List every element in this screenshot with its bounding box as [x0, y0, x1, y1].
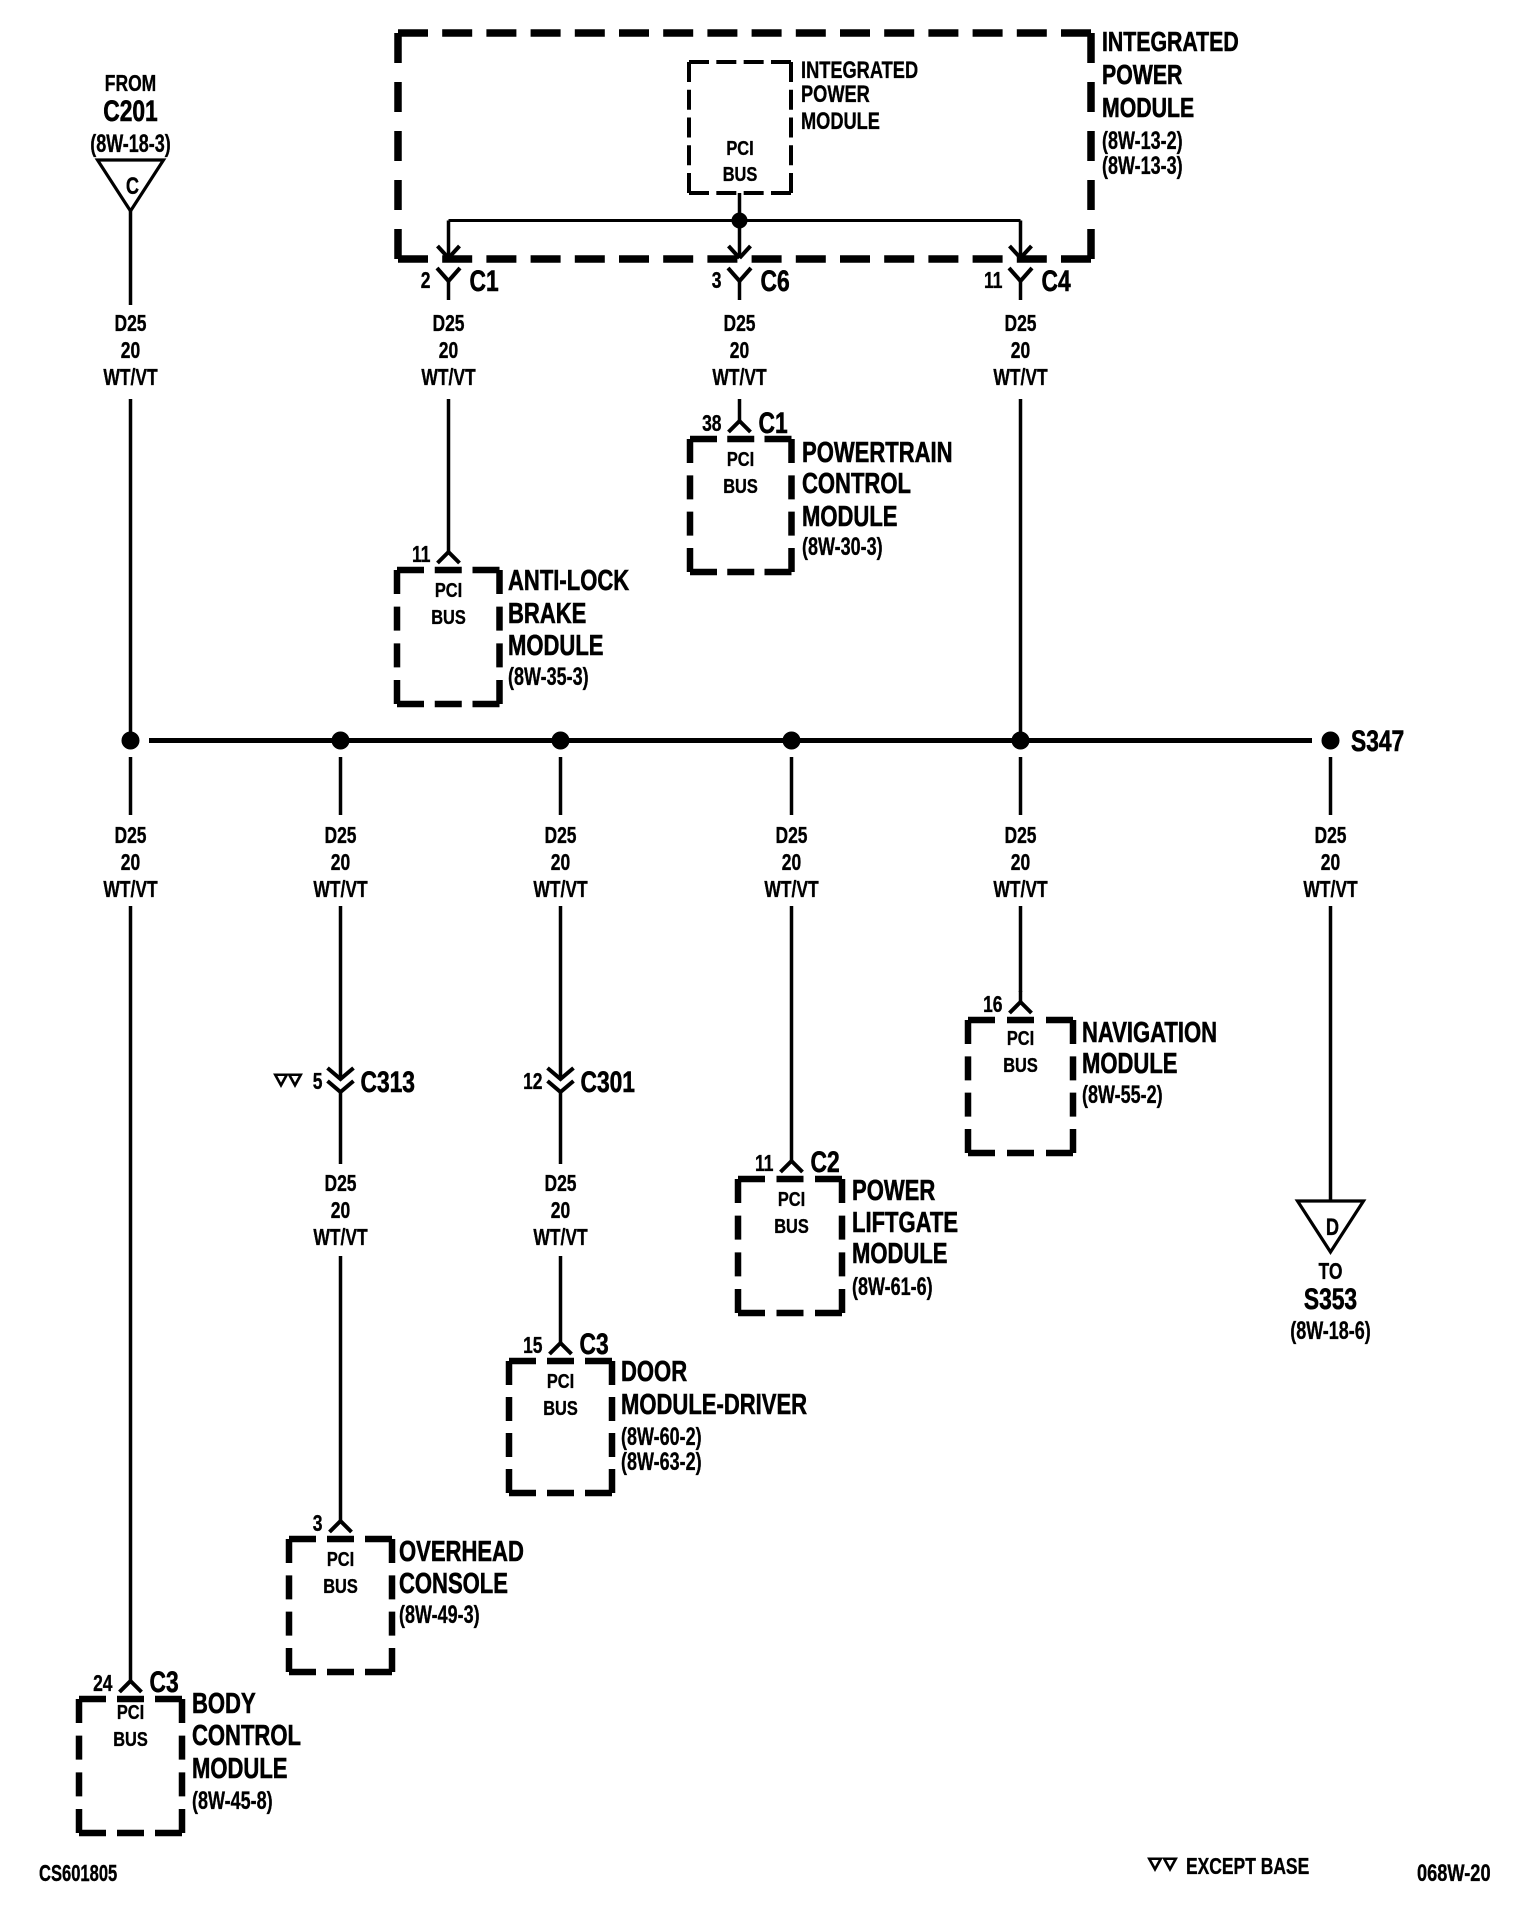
svg-text:D25: D25	[544, 824, 576, 849]
module box ANTI-LOCK BRAKE MODULE	[397, 570, 500, 704]
label CS601805	[39, 1861, 117, 1886]
label POWERTRAIN CONTROL MODULE	[802, 437, 953, 561]
label TO S353 (8W-18-6)	[1290, 1260, 1371, 1345]
connector C4 pin 11	[984, 264, 1071, 300]
svg-text:POWER: POWER	[801, 81, 870, 108]
svg-text:20: 20	[1011, 851, 1030, 876]
svg-text:12: 12	[523, 1070, 542, 1095]
svg-text:38: 38	[702, 412, 721, 437]
svg-text:MODULE: MODULE	[801, 108, 880, 135]
connector C3 pin 24 into BCM	[93, 1665, 179, 1699]
off-page connector triangle D	[1298, 1201, 1364, 1252]
junction dot	[732, 213, 748, 229]
connector C2 pin 11 into liftgate	[755, 1145, 840, 1179]
label ANTI-LOCK BRAKE MODULE	[508, 565, 630, 691]
svg-text:3: 3	[712, 269, 722, 294]
svg-text:C201: C201	[103, 94, 158, 128]
wire below splice col4	[790, 757, 794, 815]
svg-text:C1: C1	[759, 406, 788, 440]
svg-text:PCI: PCI	[727, 447, 754, 470]
wire label D25 20 WT/VT col1 top	[103, 312, 158, 391]
connector C1 pin 2	[421, 264, 499, 300]
svg-text:(8W-63-2): (8W-63-2)	[621, 1447, 702, 1476]
wire below splice col6	[1329, 757, 1333, 815]
svg-text:DOOR: DOOR	[621, 1356, 687, 1388]
svg-text:MODULE: MODULE	[1082, 1048, 1177, 1080]
svg-text:WT/VT: WT/VT	[993, 878, 1048, 903]
svg-text:D25: D25	[775, 824, 807, 849]
svg-text:MODULE: MODULE	[802, 501, 897, 533]
module box BODY CONTROL MODULE	[79, 1699, 182, 1833]
svg-text:BUS: BUS	[1003, 1053, 1038, 1076]
svg-text:POWER: POWER	[852, 1175, 936, 1207]
svg-text:WT/VT: WT/VT	[993, 366, 1048, 391]
wire below splice col2	[339, 757, 343, 815]
svg-text:068W-20: 068W-20	[1417, 1860, 1491, 1887]
svg-text:NAVIGATION: NAVIGATION	[1082, 1017, 1217, 1049]
except-base footnote triangles	[1149, 1859, 1176, 1870]
module box INTEGRATED POWER MODULE	[398, 33, 1091, 259]
svg-text:D25: D25	[1004, 824, 1036, 849]
wire PCI BUS to junction	[738, 193, 742, 221]
svg-text:WT/VT: WT/VT	[533, 878, 588, 903]
module box POWER LIFTGATE MODULE	[738, 1179, 842, 1313]
connector pin 3 into overhead console	[313, 1510, 352, 1537]
svg-text:3: 3	[313, 1512, 323, 1537]
connector C3 pin 15 into door module	[523, 1327, 609, 1361]
svg-text:20: 20	[1321, 851, 1340, 876]
label POWER LIFTGATE MODULE	[852, 1175, 958, 1301]
svg-text:D25: D25	[114, 312, 146, 337]
wire C4 column to splice	[1019, 399, 1023, 741]
connector pin 11 into ABS	[412, 541, 459, 568]
svg-text:WT/VT: WT/VT	[533, 1226, 588, 1251]
svg-text:C3: C3	[580, 1327, 609, 1361]
wire label D25 below splice col2	[313, 824, 368, 903]
module box OVERHEAD CONSOLE	[289, 1539, 392, 1672]
svg-text:WT/VT: WT/VT	[103, 878, 158, 903]
svg-text:(8W-13-3): (8W-13-3)	[1102, 151, 1183, 180]
svg-text:TO: TO	[1319, 1260, 1343, 1285]
svg-text:BUS: BUS	[323, 1574, 358, 1597]
svg-text:(8W-55-2): (8W-55-2)	[1082, 1080, 1163, 1109]
svg-text:LIFTGATE: LIFTGATE	[852, 1207, 958, 1239]
wire label D25 below splice col4	[764, 824, 819, 903]
svg-text:CONTROL: CONTROL	[192, 1720, 301, 1752]
module box NAVIGATION MODULE	[968, 1020, 1073, 1153]
svg-text:D25: D25	[324, 1172, 356, 1197]
svg-text:20: 20	[121, 851, 140, 876]
svg-text:11: 11	[755, 1152, 773, 1177]
label BODY CONTROL MODULE	[192, 1688, 301, 1815]
wire col1 to splice	[129, 399, 133, 741]
svg-text:(8W-49-3): (8W-49-3)	[399, 1600, 480, 1629]
svg-text:PCI: PCI	[117, 1700, 144, 1723]
svg-text:WT/VT: WT/VT	[764, 878, 819, 903]
svg-text:(8W-45-8): (8W-45-8)	[192, 1786, 273, 1815]
svg-text:WT/VT: WT/VT	[313, 878, 368, 903]
wire below splice col5	[1019, 757, 1023, 815]
svg-text:PCI: PCI	[1007, 1026, 1034, 1049]
wire col1 down to BCM	[129, 906, 133, 1670]
label NAVIGATION MODULE	[1082, 1017, 1217, 1109]
label DOOR MODULE-DRIVER	[621, 1356, 807, 1476]
label 068W-20	[1417, 1860, 1491, 1887]
svg-text:(8W-18-3): (8W-18-3)	[90, 129, 171, 158]
svg-text:MODULE-DRIVER: MODULE-DRIVER	[621, 1389, 807, 1421]
svg-text:20: 20	[730, 339, 749, 364]
arrow into pin 11 C4	[1010, 221, 1032, 259]
label OVERHEAD CONSOLE	[399, 1536, 524, 1629]
svg-text:11: 11	[984, 269, 1002, 294]
connector C1 pin 38 into PCM	[702, 406, 788, 440]
svg-text:MODULE: MODULE	[508, 630, 603, 662]
junction dot col4	[783, 732, 801, 750]
svg-text:ANTI-LOCK: ANTI-LOCK	[508, 565, 630, 597]
svg-text:EXCEPT BASE: EXCEPT BASE	[1186, 1855, 1309, 1880]
wire label D25 below splice col6	[1303, 824, 1358, 903]
wire label D25 below splice col1	[103, 824, 158, 903]
connector pin 16 into navigation	[983, 991, 1031, 1018]
svg-text:MODULE: MODULE	[1102, 92, 1194, 124]
wire label D25 below splice col5	[993, 824, 1048, 903]
svg-text:WT/VT: WT/VT	[712, 366, 767, 391]
arrow into pin 3 C6	[729, 221, 751, 258]
PCI BUS box inside IPM	[689, 62, 791, 193]
svg-text:20: 20	[782, 851, 801, 876]
label FROM C201 (8W-18-3)	[90, 72, 171, 158]
label integrated power module (inner)	[801, 57, 918, 135]
wire label D25 col C6	[712, 312, 767, 391]
svg-text:BUS: BUS	[431, 605, 466, 628]
svg-text:20: 20	[121, 339, 140, 364]
svg-text:C6: C6	[761, 264, 790, 298]
svg-text:D25: D25	[1004, 312, 1036, 337]
wire col3 middle	[559, 1092, 563, 1164]
label INTEGRATED POWER MODULE title	[1102, 26, 1239, 180]
junction dot col1	[122, 732, 140, 750]
wire col2 to overhead console	[339, 1256, 343, 1510]
svg-text:CS601805: CS601805	[39, 1861, 117, 1886]
wire col5 to navigation	[1019, 906, 1023, 992]
svg-text:BUS: BUS	[723, 162, 758, 185]
svg-text:BUS: BUS	[723, 474, 758, 497]
svg-text:20: 20	[551, 1199, 570, 1224]
svg-text:16: 16	[983, 993, 1002, 1018]
connector C6 pin 3	[712, 264, 790, 300]
svg-text:D25: D25	[544, 1172, 576, 1197]
svg-text:5: 5	[313, 1070, 323, 1095]
svg-text:BUS: BUS	[774, 1214, 809, 1237]
svg-text:24: 24	[93, 1672, 113, 1697]
label EXCEPT BASE	[1186, 1855, 1309, 1880]
svg-text:C313: C313	[361, 1065, 415, 1099]
svg-text:POWER: POWER	[1102, 59, 1182, 91]
wire label D25 col C4	[993, 312, 1048, 391]
distribution wire horizontal	[449, 219, 1021, 222]
svg-text:WT/VT: WT/VT	[103, 366, 158, 391]
svg-text:MODULE: MODULE	[852, 1238, 947, 1270]
svg-text:S353: S353	[1304, 1282, 1357, 1316]
svg-text:(8W-61-6): (8W-61-6)	[852, 1272, 933, 1301]
svg-text:BODY: BODY	[192, 1688, 256, 1720]
svg-text:WT/VT: WT/VT	[1303, 878, 1358, 903]
wire col4 to liftgate	[790, 906, 794, 1150]
svg-text:C2: C2	[811, 1145, 840, 1179]
module box POWERTRAIN CONTROL MODULE	[690, 439, 792, 572]
wire to PCM connector	[738, 399, 742, 410]
wire below splice col1	[129, 757, 133, 815]
wire label D25 col3 second	[533, 1172, 588, 1251]
wire label D25 col C1	[421, 312, 476, 391]
wire col3 to door module	[559, 1256, 563, 1332]
svg-text:PCI: PCI	[435, 578, 462, 601]
svg-text:CONTROL: CONTROL	[802, 468, 911, 500]
svg-text:POWERTRAIN: POWERTRAIN	[802, 437, 953, 469]
svg-text:MODULE: MODULE	[192, 1753, 287, 1785]
wire col2 middle	[339, 1092, 343, 1164]
splice dot S347	[1322, 724, 1405, 758]
svg-text:20: 20	[551, 851, 570, 876]
svg-text:C: C	[126, 173, 139, 200]
svg-text:CONSOLE: CONSOLE	[399, 1568, 508, 1600]
off-page connector triangle C	[98, 160, 164, 211]
svg-text:PCI: PCI	[547, 1369, 574, 1392]
wire label D25 below splice col3	[533, 824, 588, 903]
svg-text:PCI: PCI	[726, 136, 753, 159]
svg-text:BRAKE: BRAKE	[508, 598, 586, 630]
svg-text:(8W-18-6): (8W-18-6)	[1290, 1316, 1371, 1345]
splice S347 bus wire	[149, 738, 1312, 743]
module box DOOR MODULE-DRIVER	[509, 1361, 612, 1493]
svg-text:PCI: PCI	[778, 1187, 805, 1210]
svg-text:20: 20	[331, 1199, 350, 1224]
svg-text:INTEGRATED: INTEGRATED	[1102, 26, 1239, 58]
svg-text:15: 15	[523, 1334, 542, 1359]
svg-text:FROM: FROM	[105, 72, 156, 97]
in-line connector C301 pin 12	[523, 1065, 635, 1099]
svg-text:20: 20	[1011, 339, 1030, 364]
wire below splice col3	[559, 757, 563, 815]
svg-text:20: 20	[331, 851, 350, 876]
svg-text:OVERHEAD: OVERHEAD	[399, 1536, 524, 1568]
svg-text:D: D	[1326, 1214, 1339, 1241]
svg-text:20: 20	[439, 339, 458, 364]
wire col6 down	[1329, 906, 1333, 1208]
svg-text:D25: D25	[324, 824, 356, 849]
svg-text:D25: D25	[723, 312, 755, 337]
wire to ABS connector	[447, 399, 451, 541]
svg-text:INTEGRATED: INTEGRATED	[801, 57, 918, 84]
svg-text:D25: D25	[1314, 824, 1346, 849]
svg-text:C3: C3	[150, 1665, 179, 1699]
svg-text:C1: C1	[470, 264, 499, 298]
junction dot col5	[1012, 732, 1030, 750]
wire column1 upper	[129, 211, 133, 305]
wire col2 upper	[339, 906, 343, 1079]
svg-text:S347: S347	[1351, 724, 1404, 758]
svg-text:11: 11	[412, 543, 430, 568]
wire col3 upper	[559, 906, 563, 1079]
svg-text:BUS: BUS	[543, 1396, 578, 1419]
svg-text:PCI: PCI	[327, 1547, 354, 1570]
svg-text:WT/VT: WT/VT	[421, 366, 476, 391]
wire label D25 col2 second	[313, 1172, 368, 1251]
svg-text:(8W-35-3): (8W-35-3)	[508, 662, 589, 691]
junction dot col2	[332, 732, 350, 750]
svg-text:(8W-30-3): (8W-30-3)	[802, 532, 883, 561]
arrow into pin 2 C1	[438, 221, 460, 259]
svg-text:BUS: BUS	[113, 1727, 148, 1750]
svg-text:D25: D25	[432, 312, 464, 337]
svg-text:D25: D25	[114, 824, 146, 849]
svg-text:2: 2	[421, 269, 431, 294]
svg-text:C4: C4	[1042, 264, 1071, 298]
in-line connector C313 pin 5	[275, 1065, 415, 1099]
junction dot col3	[552, 732, 570, 750]
svg-text:WT/VT: WT/VT	[313, 1226, 368, 1251]
svg-text:C301: C301	[581, 1065, 636, 1099]
